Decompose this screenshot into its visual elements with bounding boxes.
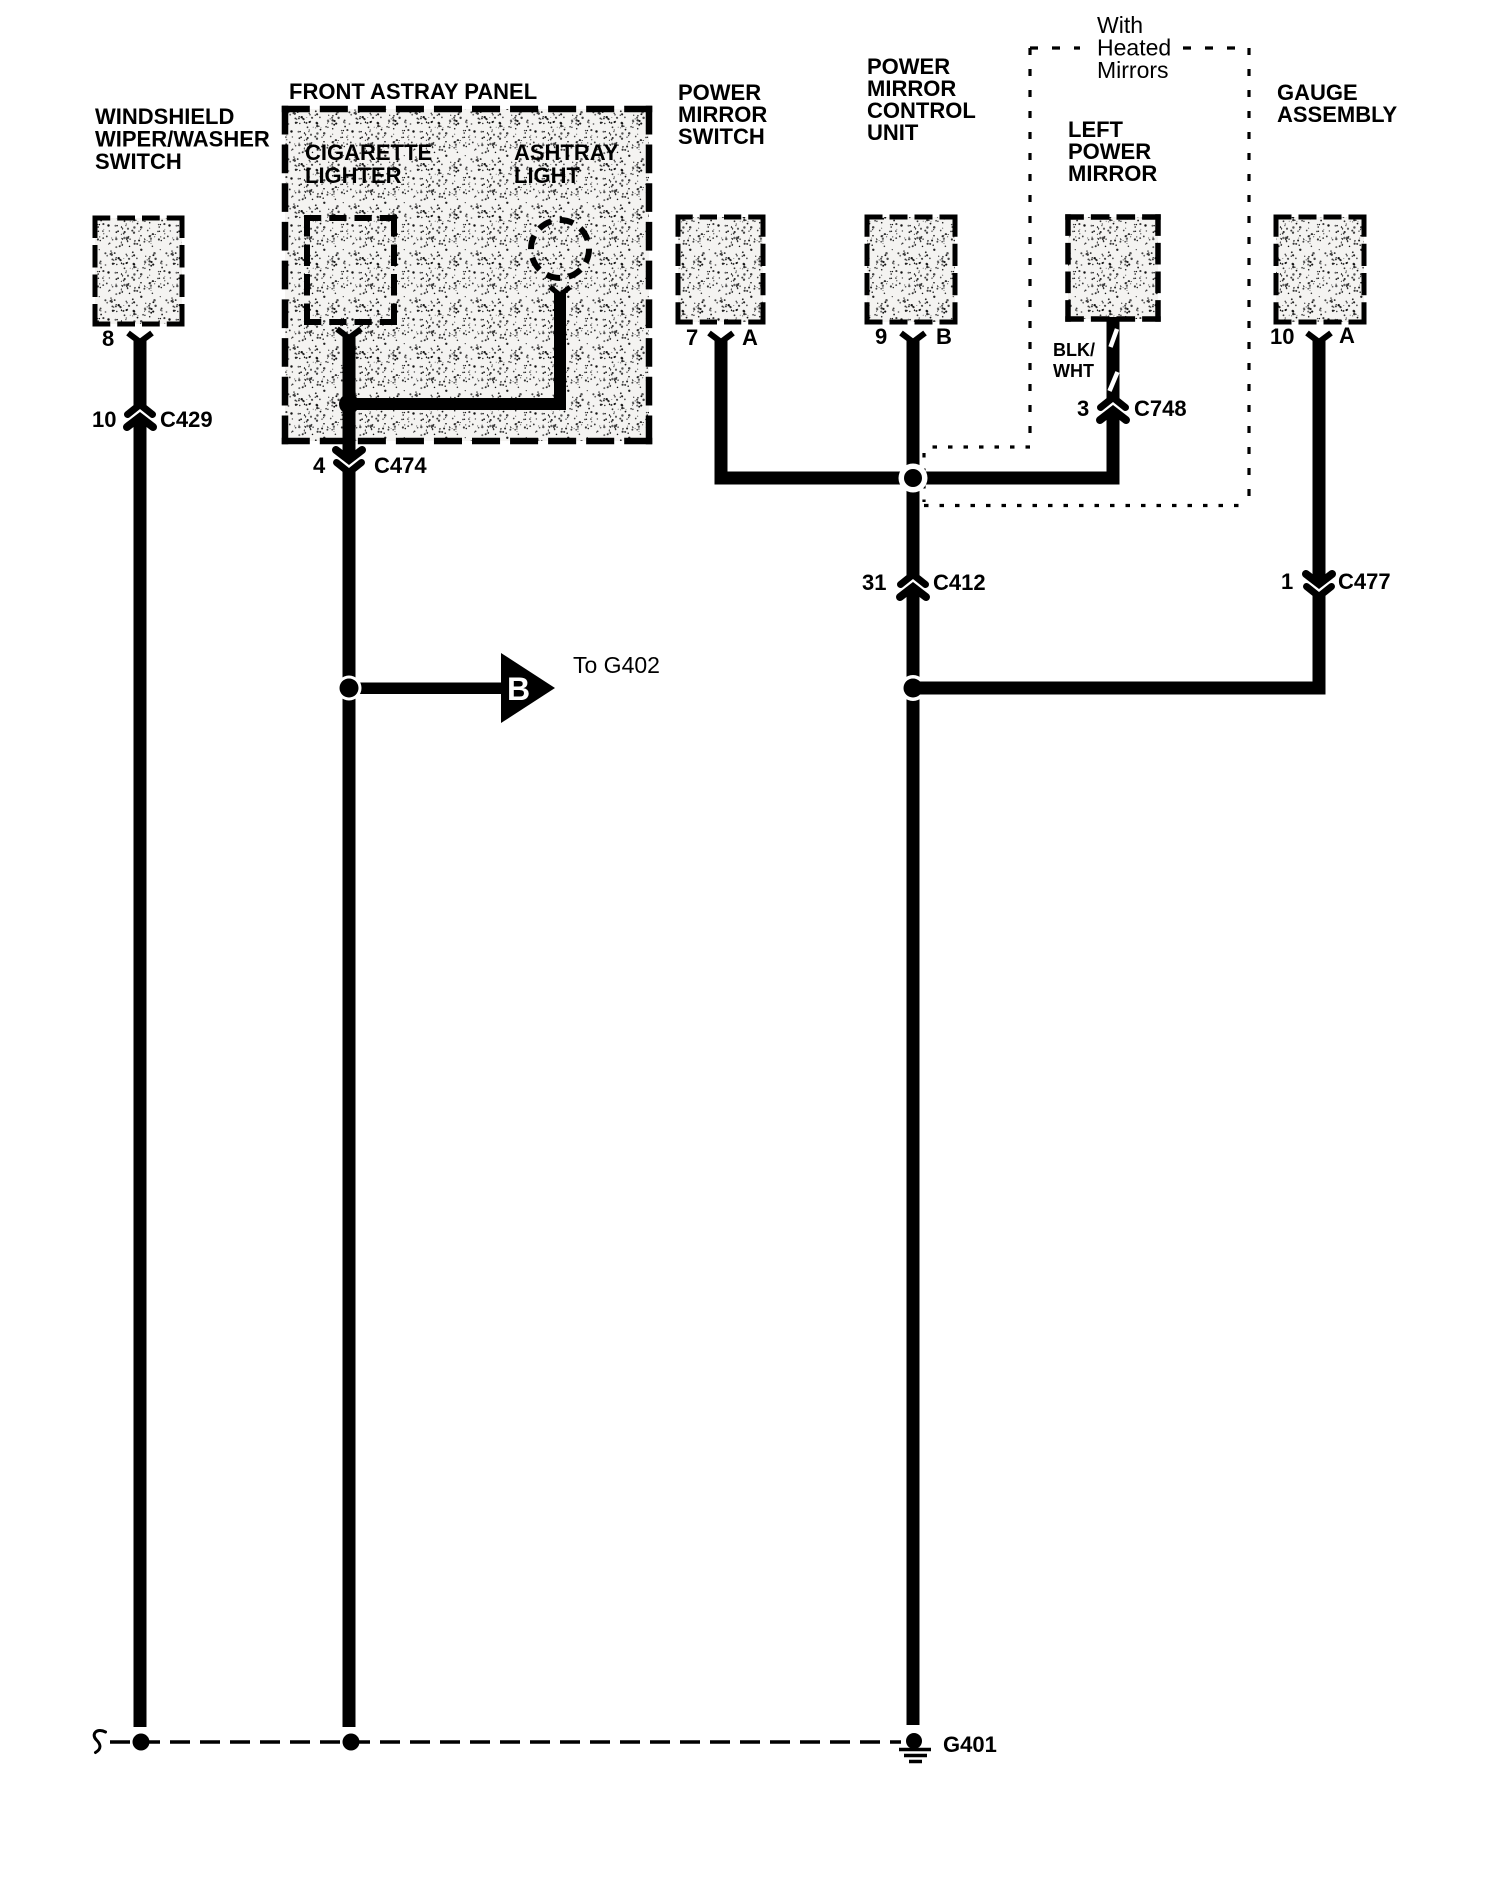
component box: left power mirror [1065,214,1161,322]
node: windshield wire to ground bus [133,1734,150,1751]
node: junction at B branch [337,676,362,701]
svg-text:C748: C748 [1134,396,1187,421]
label: LEFT POWER MIRROR [1068,117,1157,186]
svg-text:8: 8 [102,326,114,351]
svg-text:MIRROR: MIRROR [1068,161,1157,186]
wire: ashtray light horizontal to cigarette lighter wire [349,398,566,410]
connector label C474 [374,453,427,478]
label: With Heated Mirrors [1097,12,1171,83]
component box: power mirror control unit [865,215,958,325]
wire: power mirror switch pin 7 down [715,340,728,485]
component box: power mirror switch [676,215,766,325]
annotation: To G402 [573,652,660,678]
svg-text:A: A [742,325,758,350]
pin letter A (power mirror switch) [742,325,758,350]
svg-text:WHT: WHT [1053,361,1094,381]
svg-text:WINDSHIELD: WINDSHIELD [95,104,234,129]
svg-text:C429: C429 [160,407,213,432]
svg-text:FRONT ASTRAY PANEL: FRONT ASTRAY PANEL [289,79,537,104]
component: ashtray light bulb (dashed circle) [531,220,589,278]
component box: gauge assembly [1274,215,1367,325]
svg-text:G401: G401 [943,1732,997,1757]
svg-text:A: A [1339,323,1355,348]
svg-text:Mirrors: Mirrors [1097,57,1169,83]
component box: cigarette lighter [304,215,397,325]
svg-text:CIGARETTE: CIGARETTE [305,140,432,165]
wire color label BLK/WHT [1053,340,1095,381]
label: FRONT ASTRAY PANEL [289,79,537,104]
wire: C412 down to ground G401 [907,591,920,1725]
wire: C429 down to ground line [134,421,147,1727]
node: junction cigarette/ashtray [339,394,359,414]
label: GAUGE ASSEMBLY [1277,80,1398,127]
svg-text:LIGHTER: LIGHTER [305,163,402,188]
wire color stripe (white) on BLK/WHT wire [1110,329,1118,391]
label: POWER MIRROR SWITCH [678,80,767,149]
svg-text:SWITCH: SWITCH [678,124,765,149]
component box: front astray panel [282,106,653,445]
svg-text:4: 4 [313,453,326,478]
svg-text:SWITCH: SWITCH [95,149,182,174]
wire: C748 down to horizontal run [1107,414,1120,485]
terminal pin 4 (cigarette lighter) [337,329,361,338]
terminal pin 10 (gauge assembly) [1307,333,1331,342]
svg-text:To G402: To G402 [573,652,660,678]
pin number 31 at C412 [862,570,886,595]
svg-text:B: B [936,324,952,349]
connector label C748 [1134,396,1187,421]
wire: BLK/WHT left power mirror down to C748 [1107,317,1120,400]
connector C429 [127,405,153,428]
connector label C429 [160,407,213,432]
terminal pin 8 (windshield wiper/washer switch) [128,333,152,342]
pin letter B (power mirror control unit) [936,324,952,349]
pin number 10 at C429 [92,407,116,432]
ground bus: dashed wire along bottom [110,1740,901,1744]
connector C477 [1306,574,1332,597]
pin number 10 [1270,324,1294,349]
option region boundary: with heated mirrors (dashed) [924,48,1249,506]
wire: windshield switch pin 8 down to C429 [134,340,147,407]
connector C748 [1100,398,1126,421]
label: CIGARETTE LIGHTER [305,140,432,188]
svg-text:3: 3 [1077,396,1089,421]
wire: C477 down then left to control unit wire [907,593,1326,695]
svg-text:UNIT: UNIT [867,120,919,145]
svg-text:10: 10 [1270,324,1294,349]
svg-text:C412: C412 [933,570,986,595]
pin number 1 at C477 [1281,569,1293,594]
ground label G401 [943,1732,997,1757]
svg-text:BLK/: BLK/ [1053,340,1095,360]
wire: control unit pin 9 down to C412 [907,340,920,577]
svg-text:7: 7 [686,325,698,350]
svg-text:WIPER/WASHER: WIPER/WASHER [95,127,270,152]
pin number 4 at C474 [313,453,326,478]
node: junction control unit wire with gauge branch [900,675,926,701]
node: cigarette lighter wire to ground bus [343,1734,360,1751]
component box: windshield wiper/washer switch [93,216,185,327]
pin letter A (gauge assembly) [1339,323,1355,348]
terminal pin 7 (power mirror switch) [709,333,733,342]
svg-text:ASHTRAY: ASHTRAY [514,140,619,165]
wire: cigarette lighter down to C474 [343,336,356,456]
arrow B to G402 [501,653,555,723]
connector C412 [900,575,926,598]
svg-text:ASSEMBLY: ASSEMBLY [1277,102,1398,127]
svg-text:10: 10 [92,407,116,432]
wire: C474 down to ground line [343,469,356,1727]
label: POWER MIRROR CONTROL UNIT [867,54,976,145]
pin number 8 [102,326,114,351]
ground G401 symbol [899,1733,931,1762]
svg-text:LIGHT: LIGHT [514,163,581,188]
wire: gauge assembly pin 10 down to C477 [1313,340,1326,580]
wire: branch to G402 arrow [349,683,501,695]
wire: horizontal run from switch to left power mirror [715,472,1120,485]
label: ASHTRAY LIGHT [514,140,619,188]
node: junction control unit wire with horizontal run (ringed) [899,464,928,493]
wire continuation squiggle at left of ground bus [94,1731,105,1753]
terminal pin 9 (power mirror control unit) [901,333,925,342]
pin number 9 [875,324,887,349]
svg-text:1: 1 [1281,569,1293,594]
connector C474 [336,450,362,473]
svg-text:B: B [507,671,530,707]
connector label C412 [933,570,986,595]
wire: ashtray light down [554,293,566,410]
pin number 3 at C748 [1077,396,1089,421]
terminal: ashtray light bulb lead [550,287,570,295]
pin number 7 [686,325,698,350]
svg-text:31: 31 [862,570,886,595]
svg-text:9: 9 [875,324,887,349]
connector label C477 [1338,569,1391,594]
label: WINDSHIELD WIPER/WASHER SWITCH [95,104,270,174]
svg-text:C477: C477 [1338,569,1391,594]
svg-text:C474: C474 [374,453,427,478]
